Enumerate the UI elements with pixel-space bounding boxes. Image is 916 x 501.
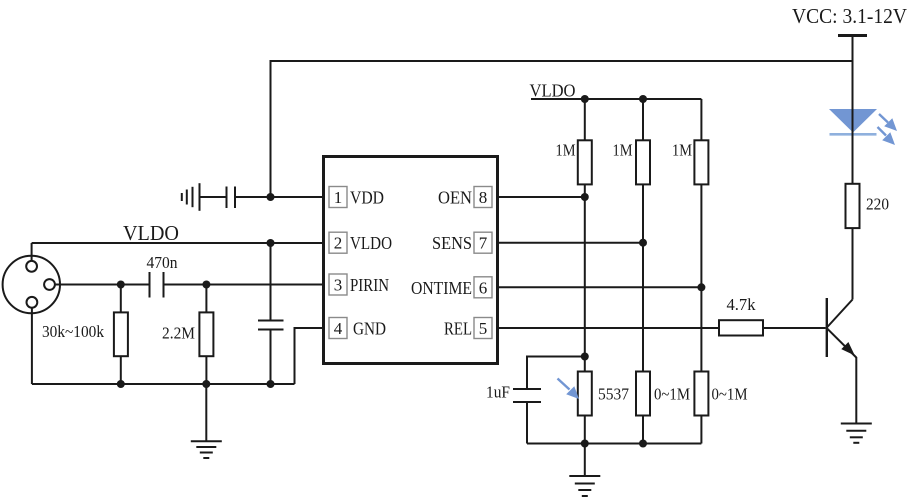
capacitor at VLDO net: [258, 243, 284, 384]
wire PIR top to VLDO rail: [31, 243, 33, 261]
svg-text:1: 1: [334, 188, 343, 207]
pin 4 box: [329, 318, 347, 339]
light arrow at 5537: [558, 379, 580, 400]
ground below 2.2M: [191, 384, 222, 458]
wire VCC through LED to resistor: [852, 36, 854, 184]
svg-text:VLDO: VLDO: [530, 81, 576, 101]
PIR pin top: [26, 261, 37, 272]
svg-text:VCC: 3.1-12V: VCC: 3.1-12V: [792, 4, 907, 28]
svg-text:VLDO: VLDO: [350, 233, 392, 253]
ground (rotated) at input cap: [182, 183, 200, 211]
resistor 0~1M (second): [694, 372, 708, 444]
resistor 30k~100k: [114, 285, 128, 385]
capacitor at VDD input: [200, 187, 236, 209]
svg-text:1M: 1M: [613, 141, 633, 160]
wire REL to 4.7k: [498, 327, 720, 329]
capacitor 470n: [150, 272, 164, 298]
resistor 1M (third): [694, 99, 708, 184]
node bottom rail junction A: [117, 380, 125, 388]
node bottom rail junction C: [267, 380, 275, 388]
resistor 5537 photo: [578, 372, 592, 444]
wire VLDO top rail: [531, 98, 701, 100]
pin 7 box: [474, 232, 492, 253]
transistor Q1: [827, 298, 857, 358]
ground below 5537: [569, 444, 600, 497]
pin 5 box: [474, 318, 492, 339]
svg-text:0~1M: 0~1M: [712, 385, 748, 404]
svg-text:4: 4: [334, 319, 343, 338]
wire first column down: [584, 184, 586, 371]
wire PIRIN row: [55, 284, 150, 286]
node VLDO rail dot B: [639, 95, 647, 103]
svg-text:GND: GND: [353, 319, 386, 339]
pin 6 box: [474, 277, 492, 298]
svg-text:2.2M: 2.2M: [162, 324, 195, 343]
LED D1 triangle: [829, 109, 877, 133]
wire GND pin step: [295, 328, 324, 384]
wire 470n to pin PIRIN: [164, 284, 324, 286]
svg-text:REL: REL: [444, 319, 472, 339]
wire third column down: [700, 184, 702, 371]
svg-text:8: 8: [479, 188, 488, 207]
svg-text:7: 7: [479, 234, 488, 253]
node rail dot B: [639, 440, 647, 448]
svg-text:2: 2: [334, 234, 343, 253]
svg-text:VLDO: VLDO: [123, 221, 179, 245]
node PIRIN junction A: [117, 281, 125, 289]
wire SENS to second column: [498, 242, 644, 244]
svg-text:ONTIME: ONTIME: [411, 278, 472, 298]
wire ONTIME to third column: [498, 286, 702, 288]
node VLDO rail junction: [267, 239, 275, 247]
wire VLDO rail left: [32, 242, 324, 244]
PIR pin bottom: [27, 297, 38, 308]
wire VDD top run to VCC: [271, 61, 853, 197]
resistor 0~1M (first): [636, 372, 650, 444]
VCC power rail bar: [838, 34, 867, 37]
svg-text:OEN: OEN: [438, 188, 472, 208]
PIR pin right: [44, 279, 55, 290]
pin 2 box: [329, 232, 347, 253]
svg-text:1M: 1M: [556, 141, 576, 160]
LED emission arrow 2: [878, 127, 896, 145]
pin 8 box: [474, 187, 492, 208]
ground at emitter: [841, 424, 872, 443]
node rail dot A: [581, 440, 589, 448]
svg-text:5: 5: [479, 319, 488, 338]
node bottom rail junction B: [202, 380, 210, 388]
LED D1 cathode bar: [830, 133, 877, 136]
svg-text:470n: 470n: [147, 253, 178, 272]
svg-text:1M: 1M: [672, 141, 692, 160]
resistor 220: [846, 184, 860, 228]
svg-text:4.7k: 4.7k: [727, 295, 756, 314]
node SENS junction: [639, 239, 647, 247]
wire 220 to collector: [852, 228, 854, 299]
pin 3 box: [329, 274, 347, 295]
LED emission arrow 1: [879, 114, 897, 131]
svg-text:0~1M: 0~1M: [654, 385, 690, 404]
wire cap to pin VDD: [235, 196, 324, 198]
wire bottom rail left: [32, 383, 295, 385]
svg-text:VDD: VDD: [350, 188, 384, 208]
node ONTIME junction: [697, 283, 705, 291]
svg-text:30k~100k: 30k~100k: [42, 322, 104, 341]
capacitor 1uF: [513, 357, 585, 444]
wire bottom rail center: [527, 443, 701, 445]
resistor 1M (second): [636, 99, 650, 184]
resistor 1M (first): [578, 99, 592, 184]
wire OEN to first column: [498, 196, 585, 198]
node VDD junction: [267, 193, 275, 201]
svg-text:6: 6: [479, 278, 488, 297]
svg-text:1uF: 1uF: [486, 383, 510, 402]
node PIRIN junction B: [202, 281, 210, 289]
wire 4.7k to base: [763, 327, 826, 329]
svg-text:3: 3: [334, 276, 343, 295]
svg-text:SENS: SENS: [432, 233, 472, 253]
svg-text:PIRIN: PIRIN: [350, 275, 389, 295]
node OEN junction: [581, 193, 589, 201]
node 1uF junction: [581, 353, 589, 361]
wire second column down: [642, 184, 644, 371]
svg-text:220: 220: [866, 195, 889, 214]
pin 1 box: [329, 187, 347, 208]
svg-text:5537: 5537: [598, 385, 629, 404]
PIR sensor body: [3, 256, 60, 313]
node VLDO rail dot A: [581, 95, 589, 103]
wire PIR bottom down: [31, 308, 33, 384]
wire emitter down: [855, 357, 857, 424]
resistor 2.2M: [199, 285, 213, 385]
resistor 4.7k: [719, 320, 763, 335]
IC U1 body: [324, 157, 498, 364]
